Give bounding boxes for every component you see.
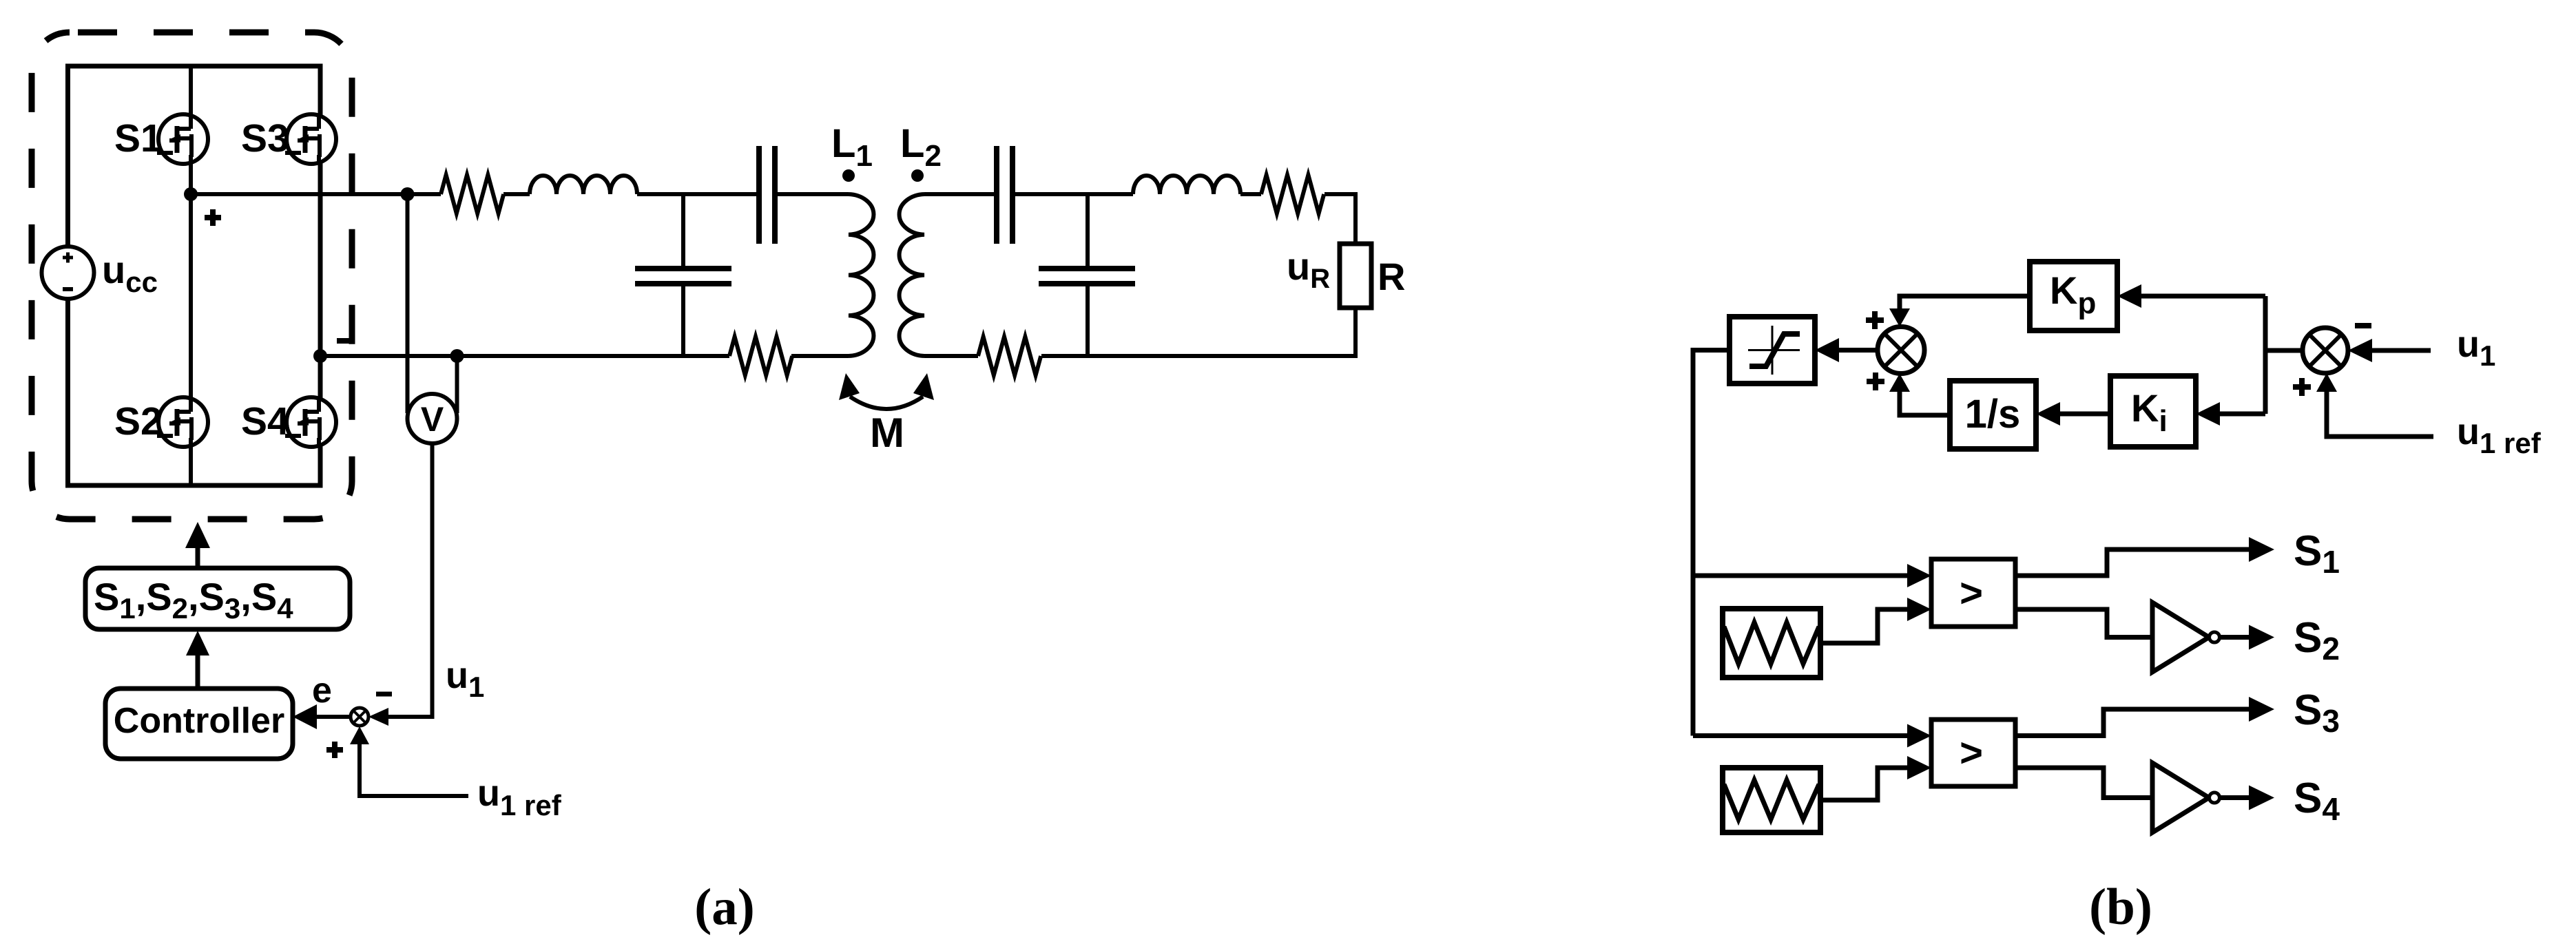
arrow into Kp [2117, 284, 2265, 308]
wire [1041, 354, 1358, 358]
svg-text:u1: u1 [446, 655, 484, 703]
wire sawtooth 1 to comparator [1820, 609, 1911, 643]
arrowhead comparator 2 upper input [1907, 724, 1931, 748]
saturation block [1730, 317, 1815, 384]
transistor S2 [157, 397, 208, 447]
inductor primary top [530, 176, 637, 194]
wire [791, 354, 849, 358]
wire secondary bottom [924, 354, 978, 358]
resistor secondary top [1261, 175, 1324, 213]
svg-text:uR: uR [1287, 244, 1330, 294]
svg-text:e: e [312, 671, 332, 711]
arrowhead u1 ref into summing b [2316, 373, 2337, 392]
wire Kp output to summing [1900, 296, 2030, 311]
node - output [313, 349, 327, 363]
block Ki [2110, 376, 2196, 447]
svg-text:>: > [1960, 571, 1983, 616]
arrow u1 into summing [2348, 339, 2431, 362]
wire NOT 2 to S4 [2220, 795, 2250, 800]
wire sawtooth 2 to comparator [1820, 768, 1911, 800]
wire u1 ref input b [2327, 389, 2433, 437]
load resistor R [1340, 244, 1371, 308]
dashed inverter enclosure box [32, 32, 352, 519]
svg-text:M: M [870, 410, 904, 456]
wire middle leg S1/S2 [189, 66, 193, 485]
H-bridge outer rectangle [68, 66, 321, 485]
wire comparator 1 output S1 [2015, 549, 2250, 576]
wire u1 from voltmeter [386, 443, 433, 717]
svg-text:S3: S3 [2294, 686, 2340, 739]
resistor primary top [441, 175, 503, 213]
wire to load [1325, 194, 1355, 244]
arrow error e into controller [293, 704, 351, 729]
wire secondary top [924, 192, 997, 196]
svg-text:V: V [421, 400, 444, 439]
block S1,S2,S3,S4 [85, 568, 350, 629]
wire bottom bus - [320, 354, 729, 358]
block Kp [2030, 262, 2117, 331]
winding L1 primary [849, 194, 873, 356]
sawtooth generator 1 [1723, 609, 1820, 678]
wire NOT 1 to S2 [2220, 635, 2250, 640]
summing junction controller [351, 708, 368, 726]
capacitor parallel primary [635, 194, 731, 356]
arrow Ki into 1/s [2036, 402, 2110, 426]
summing junction input [2303, 328, 2348, 373]
label plus [326, 742, 343, 758]
node junction voltmeter bottom [450, 349, 464, 363]
svg-text:u1 ref: u1 ref [477, 773, 562, 821]
svg-text:u1: u1 [2457, 324, 2495, 372]
wire voltmeter right [455, 356, 459, 413]
arrowhead into summing top [1889, 308, 1910, 327]
svg-text:L2: L2 [900, 121, 942, 173]
wire trunk to comparator 2 [1693, 733, 1911, 738]
wire [503, 192, 530, 196]
resistor secondary bottom [978, 337, 1041, 375]
svg-text:1/s: 1/s [1965, 392, 2021, 437]
wire top bus + [191, 192, 441, 196]
node + output [184, 187, 198, 201]
transistor S4 [285, 397, 336, 447]
arrowhead u1 into summing [368, 708, 388, 726]
arrow into Ki [2196, 402, 2265, 426]
wire trunk right [2263, 296, 2268, 414]
inductor secondary top [1133, 176, 1240, 194]
wire comparator 2 output to NOT 2 [2015, 768, 2152, 798]
arrow into inverter box [185, 522, 210, 568]
transistor S1 [157, 114, 208, 164]
dot L1 [842, 169, 855, 182]
svg-text:>: > [1960, 731, 1983, 775]
wire saturation output trunk [1693, 350, 1730, 736]
wire 1/s output to summing [1900, 389, 1950, 415]
arrowhead comparator 1 lower input [1907, 598, 1931, 621]
winding L2 secondary [900, 194, 924, 356]
coupling M arrow [839, 373, 934, 409]
wire [1012, 192, 1133, 196]
capacitor parallel secondary [1039, 194, 1135, 356]
arrowhead comparator 1 upper input [1907, 564, 1931, 587]
svg-text:S1: S1 [114, 116, 163, 160]
svg-text:S1: S1 [2294, 527, 2340, 580]
dot L2 [911, 169, 924, 182]
wire [775, 192, 849, 196]
arrow controller to S block [186, 631, 209, 688]
label plus input [2293, 378, 2311, 396]
svg-text:S2: S2 [2294, 614, 2340, 667]
transistor S3 [285, 114, 336, 164]
wire comparator 1 output to NOT 1 [2015, 609, 2152, 638]
capacitor series secondary [997, 146, 1012, 244]
NOT gate 1 [2152, 602, 2220, 672]
capacitor series primary [759, 146, 775, 244]
summing junction PI [1878, 327, 1924, 374]
arrowhead S2 [2249, 625, 2274, 650]
source ucc [42, 247, 158, 299]
wire load bottom [1353, 308, 1358, 356]
label minus input [2355, 323, 2371, 328]
label minus [376, 692, 392, 697]
node junction voltmeter top [401, 187, 415, 201]
svg-text:(a): (a) [694, 879, 754, 936]
comparator 2 [1931, 720, 2015, 786]
svg-text:S2: S2 [114, 399, 163, 443]
wire comparator 2 output S3 [2015, 709, 2250, 736]
arrowhead S1 [2249, 537, 2274, 562]
wire voltmeter left [406, 194, 410, 413]
block Controller [105, 689, 293, 759]
resistor primary bottom [729, 337, 792, 375]
svg-text:Controller: Controller [114, 701, 284, 741]
arrowhead comparator 2 lower input [1907, 756, 1931, 779]
arrowhead S3 [2249, 697, 2274, 722]
arrow into saturation [1815, 338, 1878, 362]
svg-text:ucc: ucc [102, 248, 158, 298]
arrowhead S4 [2249, 786, 2274, 810]
wire [637, 192, 759, 196]
block 1/s [1950, 381, 2036, 449]
svg-text:u1 ref: u1 ref [2457, 411, 2542, 459]
svg-text:R: R [1378, 255, 1405, 298]
wire trunk to summing right [2265, 348, 2303, 353]
wire trunk to comparator 1 [1693, 574, 1911, 578]
svg-text:S4: S4 [2294, 775, 2340, 827]
wire u1 ref input [360, 741, 468, 796]
minus sign output [337, 338, 353, 344]
svg-text:S3: S3 [241, 116, 289, 160]
plus sign output [205, 209, 221, 226]
label plus top [1866, 311, 1884, 329]
sawtooth generator 2 [1723, 768, 1820, 832]
wire [1240, 192, 1261, 196]
label plus bottom [1867, 373, 1884, 390]
arrowhead into summing bottom [1889, 374, 1910, 392]
svg-text:L1: L1 [831, 121, 873, 173]
arrowhead u1 ref into summing [350, 726, 369, 744]
NOT gate 2 [2152, 763, 2220, 832]
svg-text:S4: S4 [241, 399, 289, 443]
comparator 1 [1931, 559, 2015, 627]
voltmeter V [408, 394, 457, 443]
svg-text:(b): (b) [2089, 879, 2152, 936]
